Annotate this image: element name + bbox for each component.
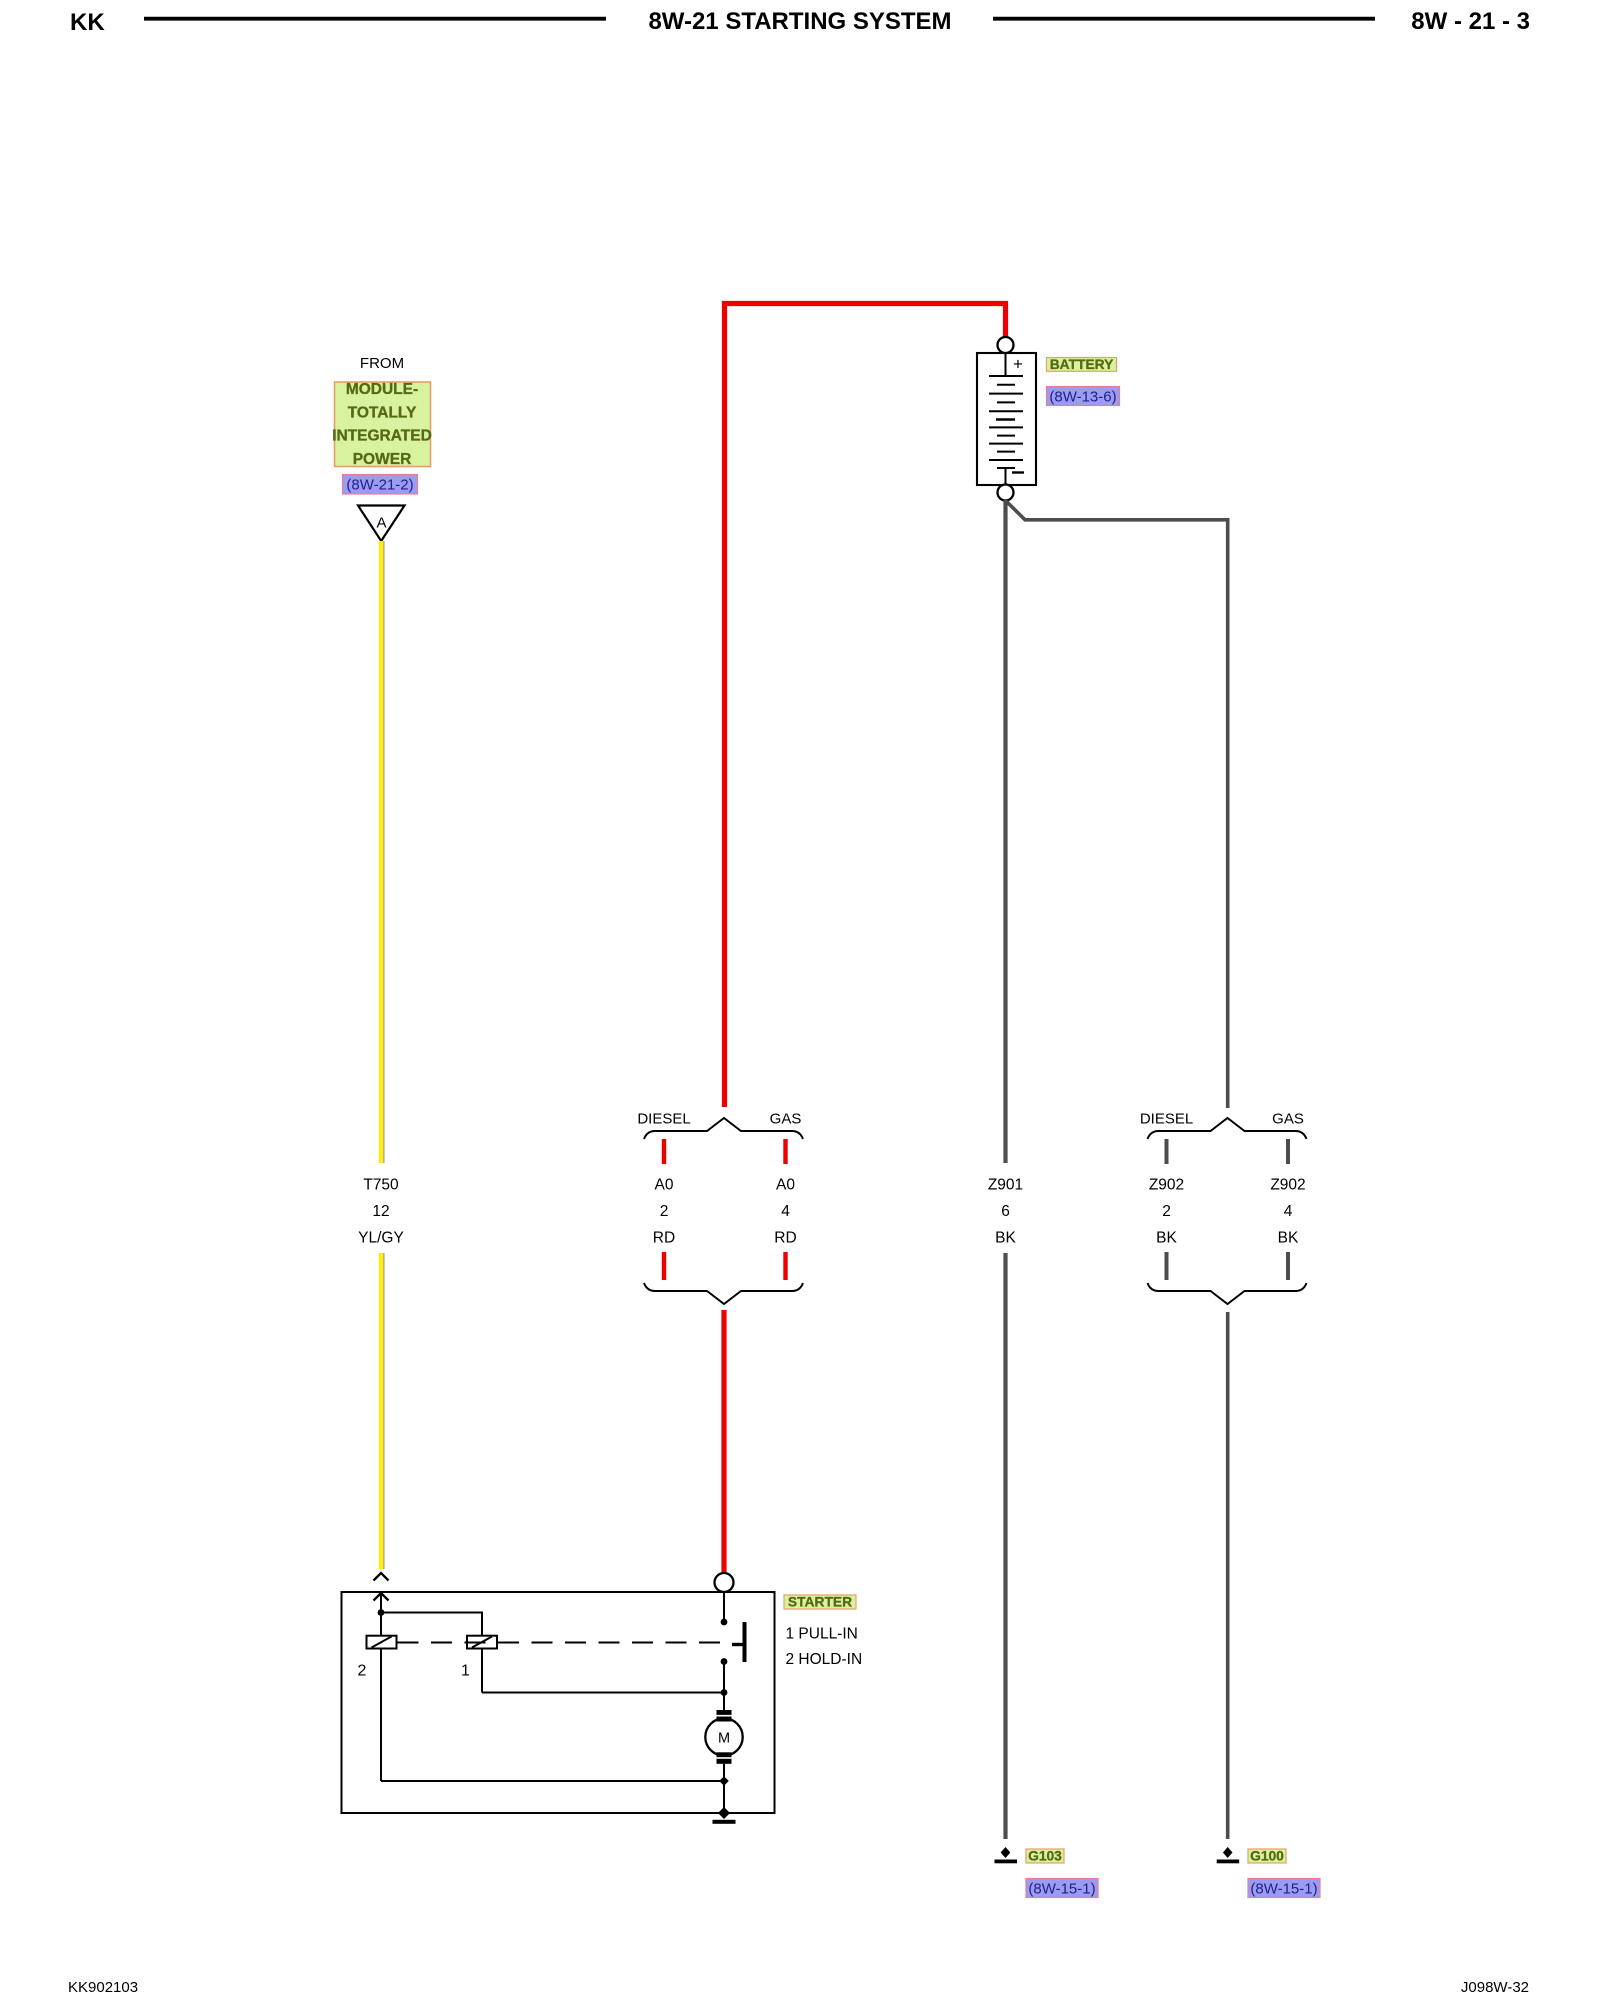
wire junction to coil 1 branch [381,1613,482,1637]
junction dot below contact [721,1658,728,1665]
connector pin stub Z902-4 top (black) [1286,1139,1290,1164]
connector pin stub A0-4 bottom (red) [783,1252,787,1280]
label A0 4 RD [774,1177,796,1247]
footer sheet code KK902103 [68,1979,138,1996]
connector pin stub Z902-4 bottom (black) [1286,1252,1290,1280]
wire motor to case ground [723,1764,725,1813]
pin number 2 [358,1663,367,1680]
svg-text:KK902103: KK902103 [68,1979,138,1996]
label DIESEL (A0 splice group) [637,1111,690,1128]
label STARTER [784,1595,856,1610]
svg-text:(8W-15-1): (8W-15-1) [1250,1881,1317,1898]
pull-in coil (1) [467,1636,497,1649]
label GAS (A0 splice group) [770,1111,802,1128]
svg-text:BK: BK [995,1230,1016,1247]
svg-text:TOTALLY: TOTALLY [348,404,417,421]
wire hold-in coil return horizontal [381,1780,724,1782]
connector pin stub A0-2 top (red) [662,1139,666,1164]
svg-text:+: + [1013,355,1023,374]
svg-text:Z902: Z902 [1149,1177,1184,1194]
case ground diamond on starter outline [718,1807,730,1819]
svg-text:T750: T750 [363,1177,399,1194]
wire coil1 return horizontal [482,1692,724,1694]
label G103 [1026,1849,1064,1864]
label GAS (Z902 splice group) [1272,1111,1304,1128]
ground G100 symbol [1217,1847,1240,1863]
svg-text:2 HOLD-IN: 2 HOLD-IN [786,1651,863,1668]
svg-text:J098W-32: J098W-32 [1461,1979,1529,1996]
wire Z902 branch: diagonal and top run to right drop [1007,502,1228,1109]
svg-text:DIESEL: DIESEL [637,1111,690,1128]
ground G103 reference (8W-15-1) [1026,1879,1098,1898]
svg-text:A: A [376,515,386,532]
starter M1 case outline [342,1592,775,1813]
battery reference (8W-13-6) [1047,387,1120,406]
svg-text:M: M [718,1731,730,1747]
svg-text:GAS: GAS [1272,1111,1304,1128]
svg-text:8W - 21 - 3: 8W - 21 - 3 [1411,8,1530,35]
label A0 2 RD [653,1177,675,1247]
pin number 1 [461,1663,470,1680]
svg-text:4: 4 [1284,1203,1293,1220]
svg-text:2: 2 [660,1203,669,1220]
label T750 12 YL/GY [358,1177,404,1247]
connector chevron outside starter (in-line terminal) [374,1573,389,1581]
svg-text:Z901: Z901 [988,1177,1023,1194]
svg-text:12: 12 [372,1203,389,1220]
wire A0 RD feed (red) from battery positive: horizontal top run [725,304,1006,1108]
svg-text:1 PULL-IN: 1 PULL-IN [786,1626,858,1643]
brace top (A0 group) [644,1118,803,1139]
wire Z902 lower segment to ground [1226,1312,1230,1839]
starter terminal circle (B+) [715,1573,734,1592]
node FROM label [360,355,404,372]
svg-text:STARTER: STARTER [788,1595,852,1610]
svg-text:FROM: FROM [360,355,404,372]
svg-text:BK: BK [1278,1230,1299,1247]
svg-text:YL/GY: YL/GY [358,1230,404,1247]
label G100 [1248,1849,1286,1864]
svg-text:4: 4 [781,1203,790,1220]
svg-text:G103: G103 [1028,1849,1062,1864]
solenoid contact T bar [732,1622,745,1662]
svg-text:2: 2 [358,1663,367,1680]
wire coil1 vertical [481,1649,483,1693]
header rule right [993,17,1375,21]
module TIPM callout box (MODULE- TOTALLY INTEGRATED POWER) [332,381,432,468]
svg-text:1: 1 [461,1663,470,1680]
motor M armature [705,1710,742,1764]
footer drawing number J098W-32 [1461,1979,1529,1996]
brace top (Z902 group) [1148,1118,1307,1139]
svg-text:6: 6 [1001,1203,1010,1220]
label DIESEL (Z902 splice group) [1140,1111,1193,1128]
label Z902 2 BK [1149,1177,1184,1247]
module reference (8W-21-2) [343,475,418,495]
dashed actuating link [398,1642,732,1644]
svg-text:DIESEL: DIESEL [1140,1111,1193,1128]
brace bottom (A0 group) [644,1283,803,1304]
hold-in coil (2) [367,1636,397,1649]
node A off-page connector triangle [358,506,405,542]
label BATTERY [1047,357,1117,372]
svg-text:POWER: POWER [353,451,412,468]
svg-text:(8W-13-6): (8W-13-6) [1049,389,1116,406]
svg-text:RD: RD [774,1230,796,1247]
label 1 PULL-IN [786,1626,858,1643]
connector pin stub A0-2 bottom (red) [662,1252,666,1280]
svg-text:RD: RD [653,1230,675,1247]
label Z901 6 BK [988,1177,1023,1247]
starter case ground bar [713,1820,736,1824]
connector pin stub Z902-2 top (black) [1165,1139,1169,1164]
wire T750 12 YL/GY (yellow) upper segment [381,541,384,1163]
ground G100 reference (8W-15-1) [1248,1879,1320,1898]
header page number 8W - 21 - 3 [1411,8,1530,35]
svg-text:BK: BK [1156,1230,1177,1247]
header rule left [144,17,606,21]
svg-text:G100: G100 [1250,1849,1284,1864]
svg-text:2: 2 [1162,1203,1171,1220]
wire A0 RD lower segment (red) to starter terminal [721,1310,726,1572]
svg-text:BATTERY: BATTERY [1050,357,1114,372]
svg-text:GAS: GAS [770,1111,802,1128]
connector pin stub Z902-2 bottom (black) [1165,1252,1169,1280]
wire T750 12 YL/GY (yellow) lower segment [381,1253,384,1569]
header text KK [70,9,105,36]
wire through hold-in coil column [380,1613,382,1782]
label Z902 4 BK [1270,1177,1305,1247]
svg-text:(8W-21-2): (8W-21-2) [346,477,413,494]
svg-text:MODULE-: MODULE- [346,381,418,398]
svg-text:Z902: Z902 [1270,1177,1305,1194]
wire terminal 2 down to junction [380,1594,382,1613]
label 2 HOLD-IN [786,1651,863,1668]
junction diamond motor return [719,1776,729,1786]
svg-text:A0: A0 [655,1177,674,1194]
connector pin stub A0-4 top (red) [783,1139,787,1164]
wire contact to motor [723,1662,725,1713]
svg-text:A0: A0 [776,1177,795,1194]
ground G103 symbol [995,1847,1018,1863]
svg-text:INTEGRATED: INTEGRATED [332,428,432,445]
wire Z901 (black/dark) battery negative down, upper segment [1003,500,1007,1163]
svg-text:(8W-15-1): (8W-15-1) [1028,1881,1095,1898]
battery B1 symbol [977,337,1036,501]
brace bottom (Z902 group) [1148,1283,1307,1304]
svg-text:KK: KK [70,9,105,36]
wire B+ into contact [723,1592,725,1622]
header title 8W-21 STARTING SYSTEM [648,8,951,35]
svg-text:8W-21 STARTING SYSTEM: 8W-21 STARTING SYSTEM [648,8,951,35]
junction dot coil1 return [721,1689,728,1696]
junction dot above contact [721,1619,728,1626]
junction dot (terminal 2 node) [378,1609,385,1616]
wire Z901 lower segment to ground [1003,1253,1007,1839]
connector chevron inside starter (terminal 2) [374,1593,389,1601]
